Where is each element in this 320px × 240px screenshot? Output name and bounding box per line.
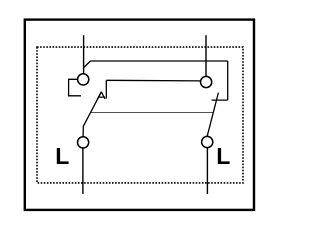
wire: right contact vertical drop <box>227 61 229 100</box>
wire: strap between levers <box>91 112 213 114</box>
svg-text:L: L <box>55 143 69 169</box>
arrowhead on left lever <box>97 92 105 99</box>
terminal: bottom-right circle (L) <box>202 136 213 147</box>
lever: right switch blade <box>207 93 218 137</box>
wire: top feed left <box>83 35 85 73</box>
wire: bottom left drop <box>82 148 84 194</box>
wire: top horizontal run <box>91 60 228 62</box>
terminal: top-left circle <box>78 74 89 85</box>
switch unit enclosure (dotted outline) <box>37 47 243 183</box>
wire: bottom right drop <box>206 148 208 194</box>
bracket hook at top-left terminal <box>69 79 81 96</box>
contact: right switch upper contact bar <box>212 99 228 101</box>
wire: junction diagonal at left feed <box>84 61 91 68</box>
contact: left switch contact post <box>105 80 107 98</box>
svg-text:L: L <box>216 143 230 169</box>
wire: top feed right <box>205 35 207 76</box>
terminal: bottom-left circle (L) <box>78 137 89 148</box>
wire: mid horizontal to right terminal <box>106 79 200 82</box>
lever: left switch blade <box>83 92 101 137</box>
terminal: top-right circle <box>201 76 212 87</box>
